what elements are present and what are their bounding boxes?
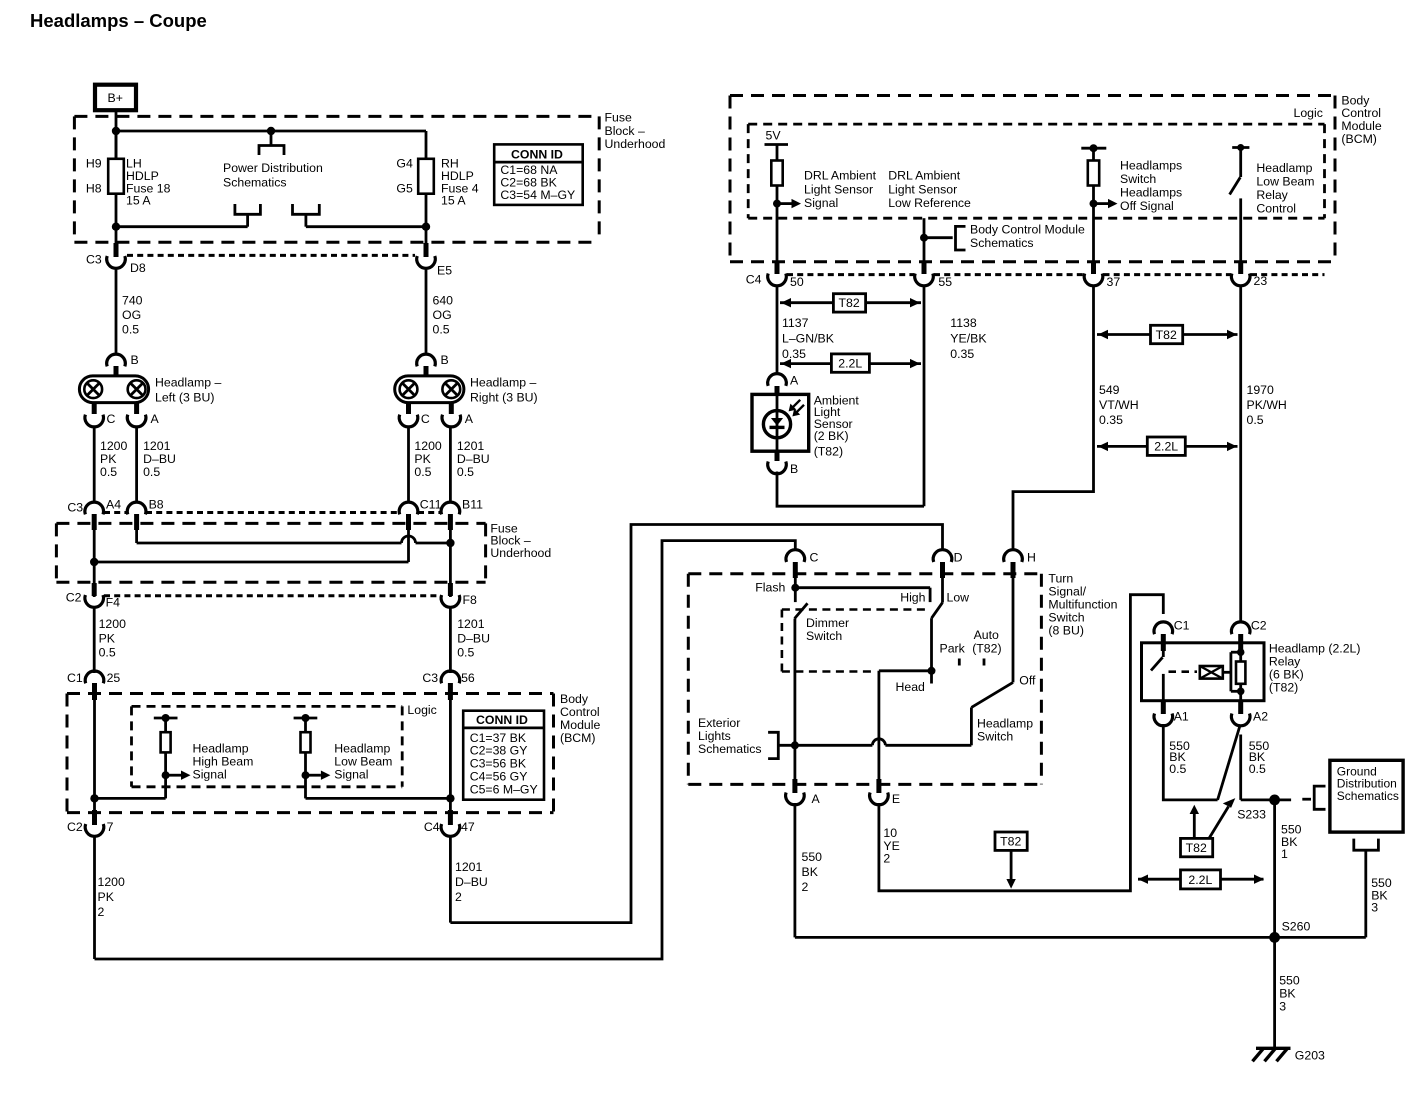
label park xyxy=(940,641,966,665)
svg-text:H9: H9 xyxy=(86,157,102,171)
wire 550 BK 3 right xyxy=(1371,876,1392,914)
resistor headlamps off pull-up xyxy=(1081,144,1106,185)
wire flash to high contact xyxy=(795,588,930,602)
svg-text:Headlamp –: Headlamp – xyxy=(470,376,536,390)
svg-text:Headlamp: Headlamp xyxy=(193,742,249,756)
svg-text:Block –: Block – xyxy=(605,124,645,138)
connector H multifunction xyxy=(1004,550,1036,578)
wire headlamp switch common with hop xyxy=(778,739,971,750)
wire A2 to S233 xyxy=(1241,799,1291,802)
svg-text:L–GN/BK: L–GN/BK xyxy=(782,331,835,345)
wire xyxy=(306,225,426,228)
svg-text:Signal: Signal xyxy=(804,196,838,210)
wire 1201 D-BU 0.5 left xyxy=(135,426,138,504)
junction xyxy=(112,223,120,231)
junction xyxy=(90,558,98,566)
svg-text:55: 55 xyxy=(938,275,952,289)
svg-text:550: 550 xyxy=(802,850,823,864)
ground G203 xyxy=(1253,1048,1326,1062)
svg-text:Low Beam: Low Beam xyxy=(334,755,392,769)
svg-text:YE/BK: YE/BK xyxy=(950,331,987,345)
connector E multifunction xyxy=(870,779,901,806)
svg-text:B+: B+ xyxy=(108,91,123,105)
svg-text:640: 640 xyxy=(433,294,454,308)
label body control module upper xyxy=(1341,93,1381,146)
svg-text:B: B xyxy=(131,353,139,367)
svg-text:Switch: Switch xyxy=(1120,172,1156,186)
fuse 18 LH HDLP 15A xyxy=(108,131,124,243)
headlamp right xyxy=(395,376,464,403)
junction xyxy=(446,539,454,547)
ground distribution schematics box xyxy=(1330,760,1403,832)
svg-text:7: 7 xyxy=(107,820,114,834)
headlamp relay box xyxy=(1142,643,1265,701)
connector C4 pin 50 xyxy=(746,262,804,289)
conn id table 2 xyxy=(463,711,544,800)
svg-text:1: 1 xyxy=(1281,847,1288,861)
label body control module lower xyxy=(560,692,600,745)
node flash xyxy=(755,576,799,602)
svg-text:PK: PK xyxy=(99,631,116,645)
svg-text:0.5: 0.5 xyxy=(122,323,139,337)
svg-text:5V: 5V xyxy=(766,129,782,143)
connector pin B11 xyxy=(441,498,483,531)
connector C1 pin 25 xyxy=(67,671,120,700)
fuse block underhood box 1 xyxy=(74,116,599,242)
svg-text:0.35: 0.35 xyxy=(950,347,974,361)
svg-text:Schematics: Schematics xyxy=(698,742,762,756)
fuse block underhood box 2 xyxy=(56,523,485,582)
tag T82 sensor pair xyxy=(780,294,921,312)
wire als return xyxy=(777,472,924,507)
wire 550 BK 2 xyxy=(795,803,822,937)
connector A1 relay xyxy=(1154,701,1189,726)
svg-text:C2: C2 xyxy=(67,820,83,834)
wire low from D xyxy=(932,576,943,671)
svg-text:D8: D8 xyxy=(130,261,146,275)
svg-text:1200: 1200 xyxy=(98,875,126,889)
svg-text:Module: Module xyxy=(560,718,600,732)
connector pin F8 xyxy=(441,583,477,607)
svg-text:C3: C3 xyxy=(422,671,438,685)
junction xyxy=(267,127,275,135)
svg-text:Headlamp (2.2L): Headlamp (2.2L) xyxy=(1269,641,1361,655)
svg-text:C1=37 BK: C1=37 BK xyxy=(470,731,527,745)
connector A2 relay xyxy=(1231,701,1268,726)
junction xyxy=(1090,200,1098,208)
arrow drl signal xyxy=(777,199,801,208)
svg-text:23: 23 xyxy=(1254,274,1268,288)
svg-text:1201: 1201 xyxy=(457,439,485,453)
svg-text:Headlamps: Headlamps xyxy=(1120,158,1182,172)
svg-text:15 A: 15 A xyxy=(441,194,466,208)
svg-text:Control: Control xyxy=(1341,106,1381,120)
svg-text:Relay: Relay xyxy=(1256,188,1288,202)
svg-text:C3=54 M–GY: C3=54 M–GY xyxy=(500,188,575,202)
svg-text:C: C xyxy=(421,412,430,426)
junction xyxy=(422,223,430,231)
svg-text:G203: G203 xyxy=(1295,1049,1325,1063)
svg-text:(T82): (T82) xyxy=(1269,680,1298,694)
tag 2.2L lower pair xyxy=(1138,870,1264,889)
svg-text:F8: F8 xyxy=(463,593,478,607)
svg-text:PK: PK xyxy=(414,452,431,466)
relay resistor xyxy=(1236,652,1245,701)
svg-text:(2 BK): (2 BK) xyxy=(814,429,849,443)
svg-text:High: High xyxy=(900,591,925,605)
svg-text:Signal: Signal xyxy=(334,767,368,781)
wire A4 to F4 xyxy=(93,528,96,597)
svg-text:VT/WH: VT/WH xyxy=(1099,398,1139,412)
junction xyxy=(446,794,454,802)
svg-text:0.5: 0.5 xyxy=(1249,762,1266,776)
svg-text:0.35: 0.35 xyxy=(1099,413,1123,427)
svg-text:F4: F4 xyxy=(106,596,121,610)
svg-text:A: A xyxy=(790,374,799,388)
svg-text:C3: C3 xyxy=(67,501,83,515)
connector A ambient light sensor xyxy=(768,374,799,396)
svg-text:Underhood: Underhood xyxy=(490,546,551,560)
resistor high beam signal xyxy=(95,714,191,798)
relay linkage dashed xyxy=(1169,670,1198,673)
svg-text:(T82): (T82) xyxy=(972,641,1001,655)
wire 1201 D-BU 2 xyxy=(450,836,487,923)
relay contact switch xyxy=(1151,643,1163,701)
svg-text:C2=38 GY: C2=38 GY xyxy=(470,744,528,758)
label headlamp right xyxy=(470,376,538,405)
svg-text:CONN ID: CONN ID xyxy=(511,148,563,162)
svg-text:Head: Head xyxy=(896,680,926,694)
svg-text:Module: Module xyxy=(1341,119,1381,133)
svg-text:T82: T82 xyxy=(1000,835,1021,849)
svg-text:Underhood: Underhood xyxy=(605,137,666,151)
headlamp left xyxy=(79,376,148,403)
wire S260 bus xyxy=(795,936,1366,939)
wire C11 branch xyxy=(94,528,408,562)
tag 2.2L sensor pair xyxy=(780,354,921,372)
svg-text:Headlamp: Headlamp xyxy=(1256,161,1312,175)
svg-text:C3=56 BK: C3=56 BK xyxy=(470,757,527,771)
wire 1137 L-GN/BK 0.35 xyxy=(776,286,779,375)
svg-text:1200: 1200 xyxy=(99,617,127,631)
svg-text:A: A xyxy=(151,412,160,426)
svg-text:Switch: Switch xyxy=(1048,611,1084,625)
logic inner box upper xyxy=(748,124,1324,218)
svg-text:Headlamps – Coupe: Headlamps – Coupe xyxy=(30,10,207,31)
wire B8 branch with hop xyxy=(137,528,451,543)
connector B headlamp right xyxy=(417,353,449,377)
wire 1201 D-BU 0.5 mid xyxy=(449,607,452,673)
label headlamp low beam relay control xyxy=(1256,161,1314,216)
svg-text:Auto: Auto xyxy=(974,628,999,642)
svg-text:C2: C2 xyxy=(66,591,82,605)
label fuse 4 xyxy=(441,157,479,208)
label headlamps switch headlamps off signal xyxy=(1120,158,1182,213)
wire 1200 PK 0.5 right xyxy=(407,426,410,504)
relay coil parallel branch xyxy=(1231,648,1245,695)
connector pin 23 xyxy=(1231,262,1267,288)
label turn signal multifunction switch xyxy=(1048,572,1117,638)
connector A headlamp left xyxy=(127,403,159,427)
svg-text:Low Beam: Low Beam xyxy=(1256,174,1314,188)
fuse 4 RH HDLP 15A xyxy=(418,131,434,243)
label headlamp low beam signal xyxy=(334,742,392,782)
svg-text:Headlamp –: Headlamp – xyxy=(155,376,221,390)
svg-text:549: 549 xyxy=(1099,383,1120,397)
svg-text:C4=56 GY: C4=56 GY xyxy=(470,770,528,784)
svg-text:0.5: 0.5 xyxy=(414,465,431,479)
wire dimmer common xyxy=(794,619,797,785)
body control module box upper xyxy=(730,96,1335,262)
battery B+ terminal xyxy=(95,85,136,111)
svg-text:High Beam: High Beam xyxy=(193,755,254,769)
svg-text:Light Sensor: Light Sensor xyxy=(804,182,873,196)
svg-text:G4: G4 xyxy=(396,157,413,171)
svg-text:37: 37 xyxy=(1107,275,1121,289)
wire 550 BK 0.5 A2 xyxy=(1241,735,1270,800)
svg-text:E: E xyxy=(892,792,900,806)
svg-text:2: 2 xyxy=(98,905,105,919)
svg-text:2: 2 xyxy=(802,880,809,894)
svg-text:D–BU: D–BU xyxy=(457,452,490,466)
bracket body control module schematics xyxy=(924,226,966,250)
svg-text:Headlamps: Headlamps xyxy=(1120,186,1182,200)
svg-text:C1: C1 xyxy=(67,671,83,685)
connector C3 pin 56 xyxy=(422,671,475,700)
svg-text:H8: H8 xyxy=(86,182,102,196)
svg-text:Body: Body xyxy=(1341,93,1370,107)
wire 549 VT/WH 0.35 xyxy=(1013,286,1094,552)
svg-text:C1: C1 xyxy=(1174,619,1190,633)
svg-text:Turn: Turn xyxy=(1048,572,1073,586)
wire B11 to F8 xyxy=(449,528,452,597)
resistor low beam signal xyxy=(294,714,451,798)
svg-text:2.2L: 2.2L xyxy=(1154,440,1178,454)
label fuse block underhood 1 xyxy=(605,111,666,151)
svg-text:1200: 1200 xyxy=(414,439,442,453)
wire to power distribution xyxy=(270,131,273,146)
svg-text:BK: BK xyxy=(802,865,819,879)
label drl ambient light sensor signal xyxy=(804,169,877,210)
svg-text:1138: 1138 xyxy=(950,316,977,330)
svg-text:E5: E5 xyxy=(437,264,452,278)
svg-text:(8 BU): (8 BU) xyxy=(1048,624,1084,638)
svg-text:Logic: Logic xyxy=(1294,106,1323,120)
wire resistor to pin 50 xyxy=(776,186,779,263)
switch relay control xyxy=(1230,144,1250,262)
connector pin 55 xyxy=(915,262,953,289)
svg-text:1201: 1201 xyxy=(143,439,171,453)
connector A multifunction xyxy=(786,779,821,806)
tag T82 down arrow xyxy=(995,832,1027,889)
resistor drl pull-up xyxy=(771,161,782,186)
junction xyxy=(112,127,120,135)
label fuse block underhood 2 xyxy=(490,521,551,560)
connector C3 pin D8 xyxy=(86,243,146,275)
label drl ambient light sensor low reference xyxy=(888,169,971,210)
svg-text:Power Distribution: Power Distribution xyxy=(223,161,323,175)
wire 550 BK 1 xyxy=(1275,800,1302,938)
connector C1 relay xyxy=(1154,619,1190,652)
svg-text:C: C xyxy=(107,412,116,426)
wire bus to fuses xyxy=(116,130,426,133)
relay coil xyxy=(1200,666,1231,679)
connector C2 relay xyxy=(1231,619,1266,653)
label exterior lights schematics xyxy=(698,716,762,756)
wire xyxy=(116,225,248,228)
svg-text:47: 47 xyxy=(461,820,475,834)
svg-text:Low: Low xyxy=(947,591,970,605)
svg-text:Signal: Signal xyxy=(193,767,227,781)
connector line C4 row xyxy=(787,273,1325,276)
label headlamp left xyxy=(155,376,221,405)
svg-text:Headlamp: Headlamp xyxy=(977,716,1033,730)
svg-text:2: 2 xyxy=(883,852,890,866)
wire resistor to pin 37 xyxy=(1092,186,1095,263)
svg-text:T82: T82 xyxy=(1186,841,1207,855)
svg-text:D–BU: D–BU xyxy=(455,875,488,889)
svg-text:740: 740 xyxy=(122,294,143,308)
svg-text:2.2L: 2.2L xyxy=(838,357,862,371)
svg-text:0.5: 0.5 xyxy=(457,465,474,479)
connector D multifunction xyxy=(933,550,962,578)
connector C headlamp right xyxy=(399,403,430,427)
svg-text:A: A xyxy=(465,412,474,426)
svg-text:B: B xyxy=(790,462,798,476)
svg-text:DRL Ambient: DRL Ambient xyxy=(804,169,877,183)
tag 2.2L bcm pair xyxy=(1097,437,1238,455)
svg-text:2.2L: 2.2L xyxy=(1188,873,1212,887)
svg-text:Switch: Switch xyxy=(806,629,842,643)
svg-text:Headlamp: Headlamp xyxy=(334,742,390,756)
label body control module schematics xyxy=(970,222,1085,250)
svg-text:B11: B11 xyxy=(462,498,483,512)
dimmer switch lever xyxy=(795,603,808,618)
connector C headlamp left xyxy=(85,403,116,427)
arrow headlamps off signal xyxy=(1094,199,1118,208)
wire 10 YE 2 xyxy=(879,595,1163,891)
off-page connector power distribution xyxy=(259,146,284,156)
svg-text:C3: C3 xyxy=(86,253,102,267)
svg-text:Off Signal: Off Signal xyxy=(1120,199,1174,213)
wire route 47 to multifunction D xyxy=(450,525,942,923)
contact head xyxy=(896,671,932,694)
svg-text:Low Reference: Low Reference xyxy=(888,196,971,210)
svg-text:0.5: 0.5 xyxy=(457,645,474,659)
svg-text:B8: B8 xyxy=(149,498,164,512)
svg-text:A2: A2 xyxy=(1253,710,1268,724)
svg-text:Control: Control xyxy=(1256,202,1296,216)
svg-text:15 A: 15 A xyxy=(126,194,151,208)
svg-text:(BCM): (BCM) xyxy=(560,731,596,745)
svg-text:Relay: Relay xyxy=(1269,654,1301,668)
svg-text:25: 25 xyxy=(107,671,121,685)
svg-text:CONN ID: CONN ID xyxy=(476,713,528,727)
svg-text:56: 56 xyxy=(461,671,475,685)
wire 25 to 7 xyxy=(93,700,96,812)
svg-text:Schematics: Schematics xyxy=(223,176,287,190)
svg-text:PK/WH: PK/WH xyxy=(1247,398,1287,412)
svg-text:D: D xyxy=(954,551,963,565)
svg-text:1200: 1200 xyxy=(100,439,128,453)
label headlamp relay xyxy=(1269,641,1361,694)
svg-text:T82: T82 xyxy=(1156,328,1177,342)
svg-text:Lights: Lights xyxy=(698,729,731,743)
connector line C3 row xyxy=(127,254,415,257)
svg-text:Body Control Module: Body Control Module xyxy=(970,222,1085,236)
bracket exterior lights schematics xyxy=(768,732,778,758)
wire route 7 to multifunction C xyxy=(95,541,796,959)
svg-text:0.5: 0.5 xyxy=(433,323,450,337)
svg-text:(6 BK): (6 BK) xyxy=(1269,667,1304,681)
svg-text:DRL Ambient: DRL Ambient xyxy=(888,169,961,183)
wire 1200 PK 2 xyxy=(95,836,126,959)
wire pin 55 xyxy=(923,218,926,262)
wire xyxy=(304,214,307,226)
bracket ground distribution schematics xyxy=(1302,786,1325,809)
svg-text:0.5: 0.5 xyxy=(143,465,160,479)
svg-text:S260: S260 xyxy=(1282,919,1311,933)
svg-text:0.5: 0.5 xyxy=(1169,762,1186,776)
svg-text:0.5: 0.5 xyxy=(100,465,117,479)
svg-text:C4: C4 xyxy=(424,820,440,834)
svg-text:D–BU: D–BU xyxy=(143,452,176,466)
svg-text:Right (3 BU): Right (3 BU) xyxy=(470,391,538,405)
svg-text:2: 2 xyxy=(455,890,462,904)
connector C2 pin 7 xyxy=(67,810,114,836)
svg-text:OG: OG xyxy=(122,308,141,322)
svg-text:Body: Body xyxy=(560,692,589,706)
svg-text:1970: 1970 xyxy=(1247,383,1275,397)
connector pin C11 xyxy=(399,498,441,531)
label power distribution schematics xyxy=(223,161,323,190)
connector B headlamp left xyxy=(107,353,139,377)
svg-text:Schematics: Schematics xyxy=(970,236,1034,250)
connector E5 xyxy=(417,243,453,278)
connector pin 37 xyxy=(1084,262,1120,289)
turn signal multifunction switch box xyxy=(688,574,1041,785)
svg-text:C: C xyxy=(810,551,819,565)
wire head to E xyxy=(879,669,932,672)
svg-text:C11: C11 xyxy=(420,498,442,512)
wire 1200 PK 0.5 left xyxy=(93,426,96,504)
node 5V xyxy=(765,129,789,161)
junction head xyxy=(928,667,936,675)
svg-text:Exterior: Exterior xyxy=(698,716,740,730)
svg-text:Control: Control xyxy=(560,705,600,719)
dimmer switch box xyxy=(782,610,930,672)
wire 1200 PK 0.5 mid xyxy=(93,607,96,673)
connector A headlamp right xyxy=(442,403,474,427)
svg-text:Light Sensor: Light Sensor xyxy=(888,182,957,196)
off-page connector right lower xyxy=(293,204,320,214)
svg-text:Signal/: Signal/ xyxy=(1048,585,1086,599)
tag T82 bcm pair xyxy=(1097,325,1238,343)
svg-text:0.5: 0.5 xyxy=(99,645,116,659)
svg-text:1201: 1201 xyxy=(457,617,485,631)
svg-text:(T82): (T82) xyxy=(814,444,843,458)
wire 1138 YE/BK 0.35 xyxy=(923,286,926,507)
svg-text:Left (3 BU): Left (3 BU) xyxy=(155,391,214,405)
svg-text:(BCM): (BCM) xyxy=(1341,132,1377,146)
svg-text:3: 3 xyxy=(1279,999,1286,1013)
label fuse 18 xyxy=(126,157,171,208)
connector C multifunction xyxy=(786,550,819,578)
wire B+ to fuse H9 xyxy=(115,110,118,160)
svg-text:B: B xyxy=(441,353,449,367)
wire 640 OG 0.5 xyxy=(425,269,428,356)
wire xyxy=(246,214,249,226)
